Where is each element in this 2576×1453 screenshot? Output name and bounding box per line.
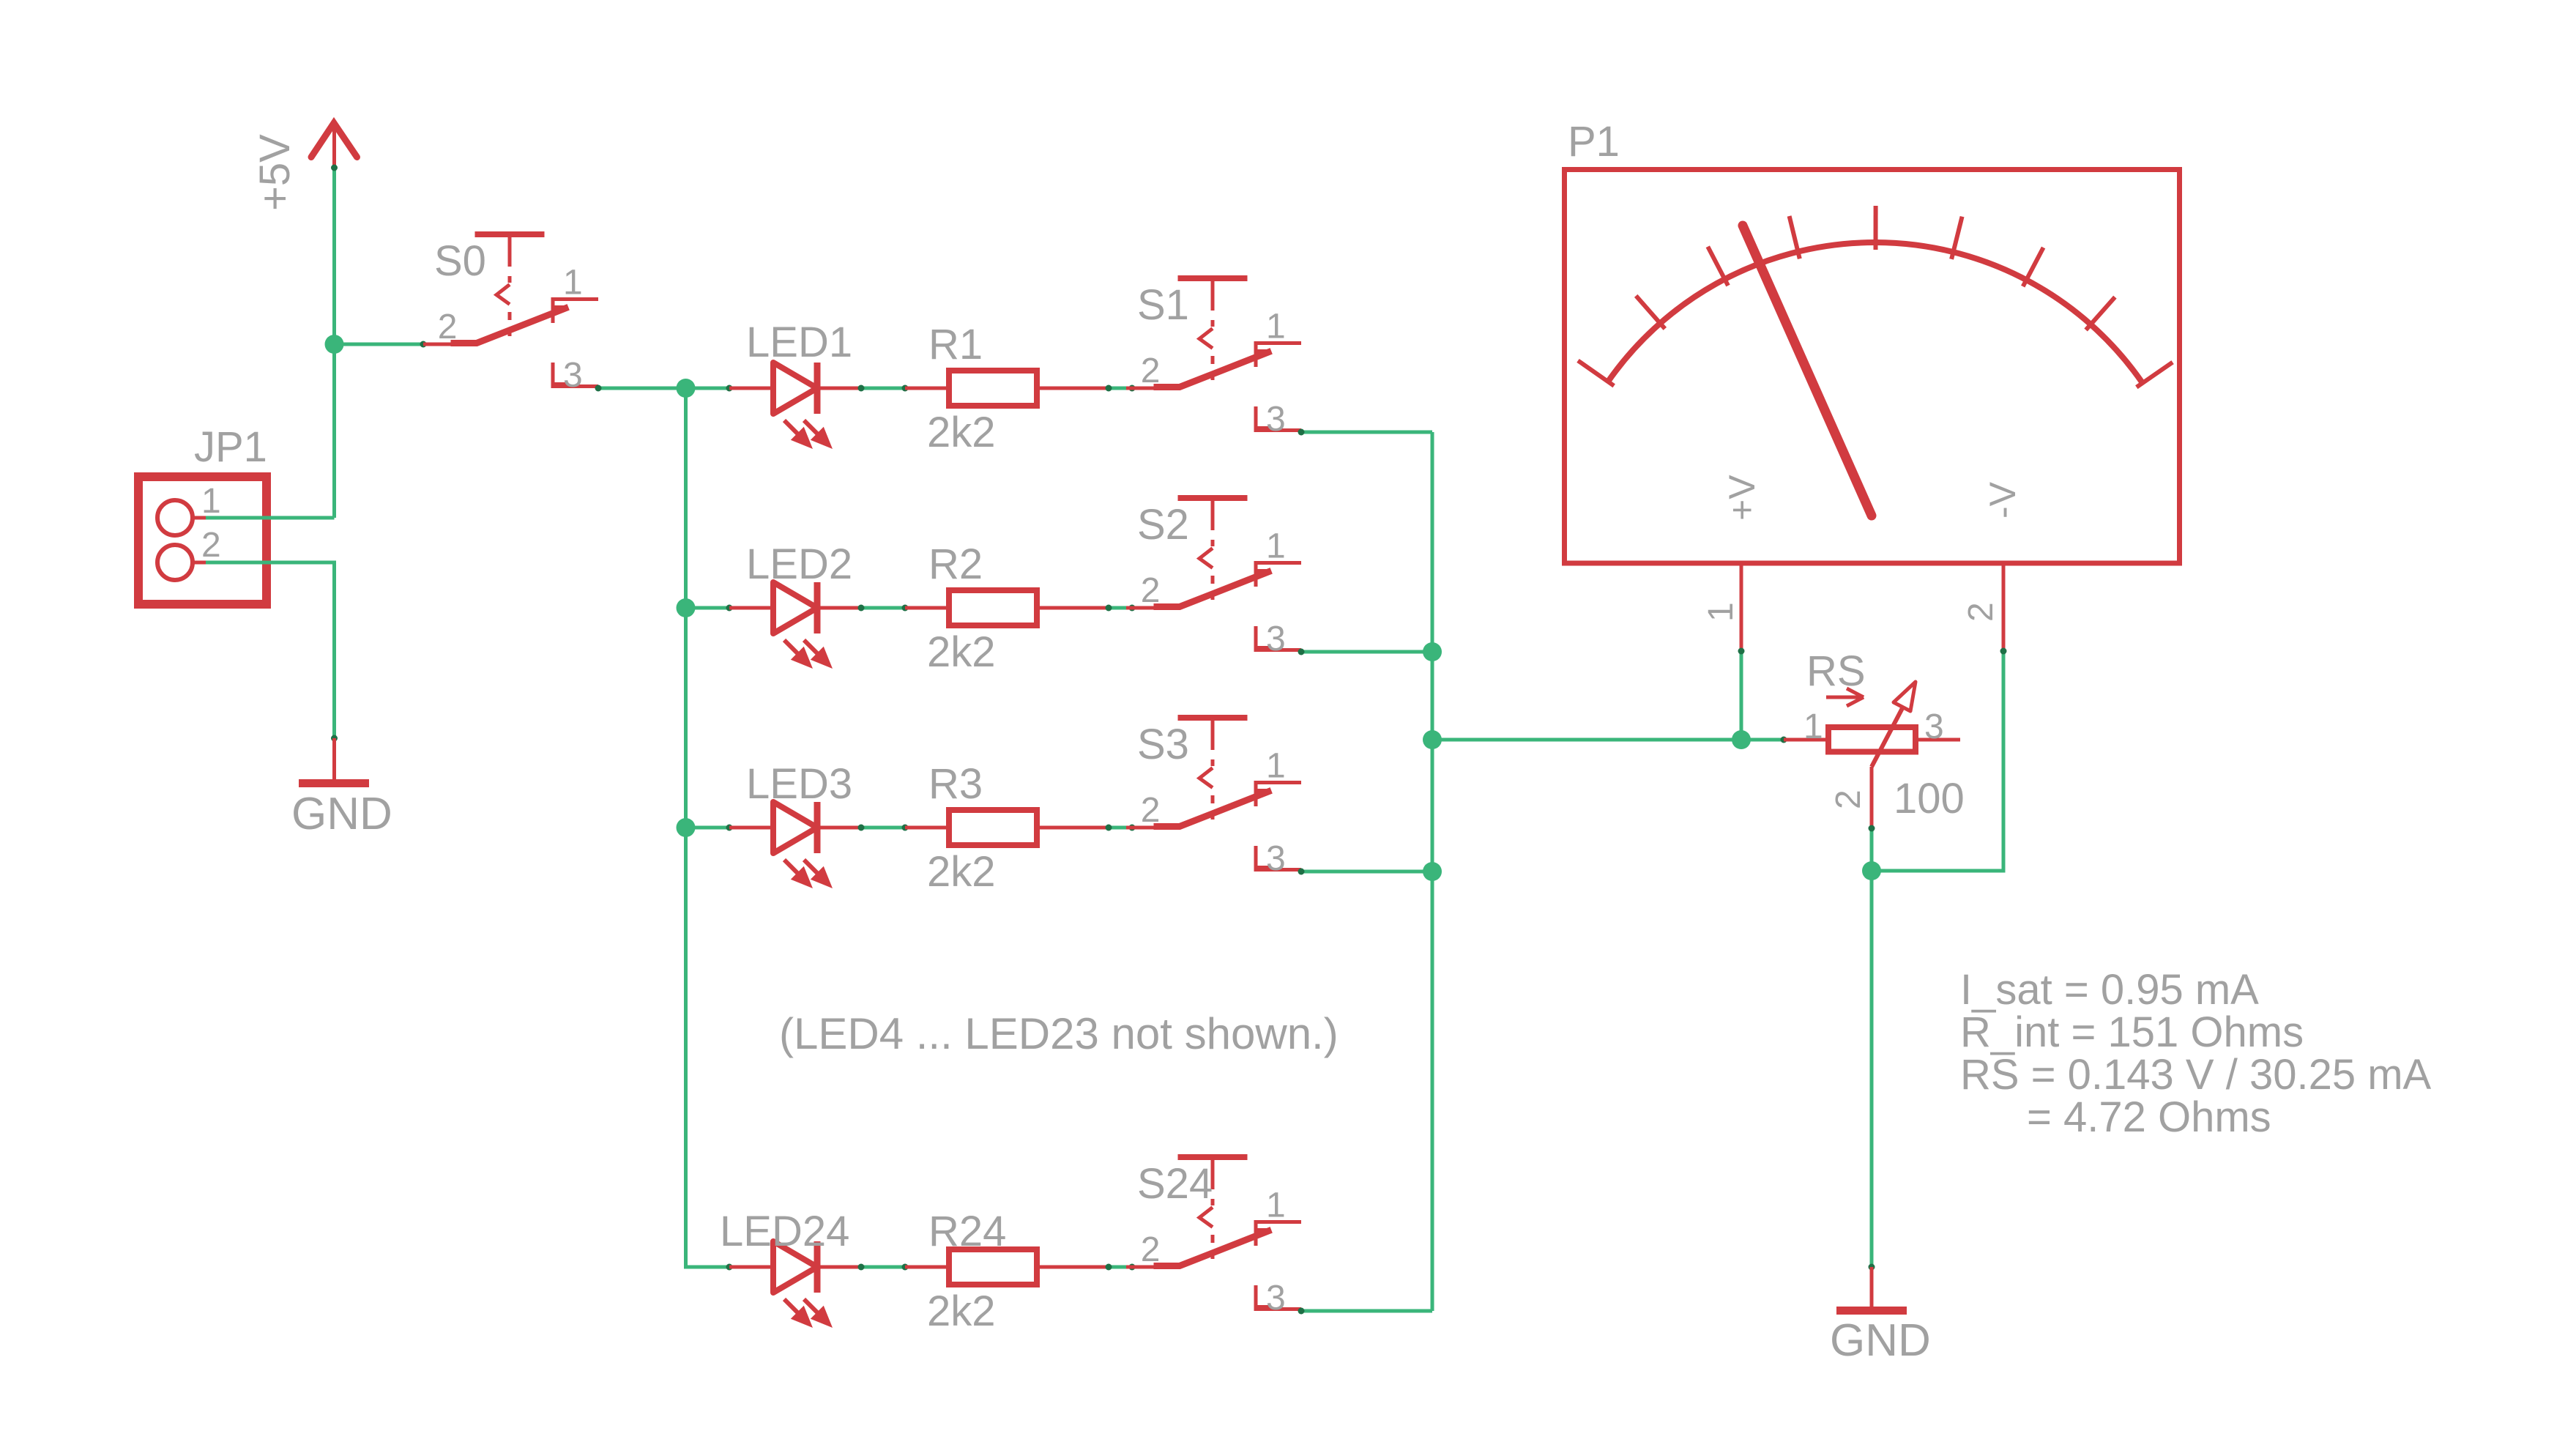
wire LED2 cathode to R2 bbox=[861, 606, 905, 610]
plunger T-bar bbox=[1178, 1154, 1248, 1160]
svg-text:1: 1 bbox=[1266, 527, 1286, 566]
diode triangle and cathode bar bbox=[773, 363, 817, 414]
wire +5V rail down to JP1 pin 1 bbox=[332, 168, 336, 518]
wire S0 pin 3 to LED bus bbox=[598, 387, 686, 390]
wire bus to LED1 anode bbox=[686, 387, 730, 390]
svg-text:R_int = 151 Ohms: R_int = 151 Ohms bbox=[1960, 1008, 2304, 1056]
svg-text:LED1: LED1 bbox=[746, 319, 852, 366]
lever bbox=[1157, 352, 1268, 387]
note I_sat calculation bbox=[1960, 966, 2432, 1141]
ground bar bbox=[1836, 1307, 1907, 1315]
svg-text:2: 2 bbox=[438, 308, 458, 346]
light emission arrows bbox=[784, 860, 801, 877]
svg-text:2: 2 bbox=[1141, 352, 1161, 390]
pin 2 lead bbox=[1126, 826, 1180, 830]
anode pin bbox=[729, 826, 773, 830]
cathode pin bbox=[817, 387, 861, 390]
svg-text:S0: S0 bbox=[434, 237, 486, 285]
svg-text:1: 1 bbox=[1803, 707, 1823, 746]
wire junction down to GND bbox=[1870, 871, 1874, 1267]
svg-text:2: 2 bbox=[1141, 791, 1161, 830]
diode triangle and cathode bar bbox=[773, 802, 817, 853]
LED LED24 bbox=[720, 1208, 861, 1328]
pin 2 lead bbox=[193, 561, 206, 565]
svg-text:2k2: 2k2 bbox=[927, 1287, 996, 1335]
pin 2 (wiper) lead bbox=[1870, 767, 1874, 828]
svg-text:3: 3 bbox=[563, 356, 583, 395]
anode pin bbox=[729, 606, 773, 610]
svg-text:P1: P1 bbox=[1568, 118, 1620, 166]
LED LED2 bbox=[729, 540, 861, 669]
svg-text:3: 3 bbox=[1266, 1279, 1286, 1318]
resistor body bbox=[949, 590, 1037, 625]
svg-text:2k2: 2k2 bbox=[927, 628, 996, 676]
svg-text:R24: R24 bbox=[928, 1208, 1006, 1255]
ground bar bbox=[299, 779, 369, 787]
meter P1 (analog panel meter) bbox=[1565, 118, 2180, 563]
wire S2 pin 3 to right bus bbox=[1301, 650, 1432, 654]
resistor R1 2k2 bbox=[905, 321, 1109, 456]
pin 1 contact and lead bbox=[1254, 781, 1258, 806]
diode triangle and cathode bar bbox=[773, 582, 817, 633]
svg-text:2: 2 bbox=[201, 526, 221, 565]
resistor R2 2k2 bbox=[905, 540, 1109, 676]
ground GND (left) bbox=[291, 738, 392, 839]
diode triangle and cathode bar bbox=[773, 1241, 817, 1293]
svg-text:GND: GND bbox=[1830, 1315, 1931, 1366]
actuator spring dashes bbox=[508, 276, 512, 283]
svg-text:S2: S2 bbox=[1137, 501, 1189, 549]
svg-text:R3: R3 bbox=[928, 760, 983, 808]
plunger T-bar bbox=[1178, 715, 1248, 721]
plunger T-bar bbox=[1178, 495, 1248, 501]
svg-text:RS: RS bbox=[1806, 647, 1866, 695]
wire right collector bus vertical bbox=[1431, 432, 1434, 1311]
cathode pin bbox=[817, 606, 861, 610]
pin 2 lead bbox=[1037, 826, 1109, 830]
svg-text:3: 3 bbox=[1266, 400, 1286, 439]
wire bus to LED3 anode bbox=[686, 826, 730, 830]
switch S3 (pins 1,2,3) bbox=[1126, 718, 1301, 878]
svg-text:S24: S24 bbox=[1137, 1160, 1213, 1208]
meter body bbox=[1565, 170, 2180, 564]
actuator spring dashes bbox=[1211, 759, 1215, 766]
light emission arrows bbox=[784, 420, 801, 437]
wire LED1 cathode to R1 bbox=[861, 387, 905, 390]
pin 1 lead bbox=[905, 826, 949, 830]
svg-text:I_sat = 0.95 mA: I_sat = 0.95 mA bbox=[1960, 966, 2259, 1014]
pin 2 pad bbox=[157, 545, 193, 580]
wire S1 pin 3 to right bus bbox=[1301, 431, 1432, 434]
pin 1 pad bbox=[157, 500, 193, 535]
actuator spring dashes bbox=[1211, 320, 1215, 327]
wire bus to LED2 anode bbox=[686, 606, 730, 610]
pin 1 contact and lead bbox=[1254, 561, 1258, 587]
LED LED1 bbox=[729, 319, 861, 449]
pin 2 lead bbox=[1037, 606, 1109, 610]
svg-text:1: 1 bbox=[563, 264, 583, 302]
svg-text:2: 2 bbox=[1962, 602, 2000, 622]
svg-text:S3: S3 bbox=[1137, 721, 1189, 768]
meter pin 1 lead bbox=[1702, 563, 1741, 651]
resistor body bbox=[949, 371, 1037, 406]
svg-text:2: 2 bbox=[1141, 1230, 1161, 1269]
light emission arrows bbox=[784, 1299, 801, 1316]
scale ticks bbox=[1578, 360, 1614, 385]
wire JP1 pin 1 to +5V rail bbox=[206, 516, 335, 520]
wire RS pin 2 down bbox=[1870, 828, 1874, 871]
lever bbox=[1157, 1231, 1268, 1266]
plunger T-bar bbox=[475, 231, 545, 237]
svg-text:R1: R1 bbox=[928, 321, 983, 368]
pin 3 contact and lead bbox=[1254, 846, 1258, 872]
wire bus to meter P1 pin 1 bbox=[1432, 738, 1741, 742]
pin 3 contact and lead bbox=[1254, 406, 1258, 432]
svg-text:+5V: +5V bbox=[251, 134, 299, 211]
connector body bbox=[138, 477, 267, 604]
svg-text:1: 1 bbox=[1266, 747, 1286, 786]
pin 1 contact and lead bbox=[1254, 341, 1258, 367]
anode pin bbox=[729, 387, 773, 390]
scale arc bbox=[1608, 242, 2143, 383]
switch S2 (pins 1,2,3) bbox=[1126, 498, 1301, 658]
junction bus / S2 pin 3 bbox=[1423, 642, 1442, 661]
plunger T-bar bbox=[1178, 275, 1248, 281]
pin 2 lead bbox=[1126, 387, 1180, 390]
svg-text:R2: R2 bbox=[928, 540, 983, 588]
wire R1 to S1 pin 2 bbox=[1109, 387, 1132, 390]
pin 2 lead bbox=[1126, 1266, 1180, 1269]
resistor body bbox=[949, 810, 1037, 845]
svg-text:2k2: 2k2 bbox=[927, 409, 996, 456]
pin 3 contact and lead bbox=[1254, 626, 1258, 652]
svg-text:LED2: LED2 bbox=[746, 540, 852, 588]
trimmer resistor RS 100 bbox=[1784, 647, 1965, 828]
svg-text:1: 1 bbox=[201, 482, 221, 521]
junction bus / meter feed bbox=[1423, 730, 1442, 749]
svg-text:1: 1 bbox=[1266, 308, 1286, 346]
actuator spring dashes bbox=[1211, 540, 1215, 546]
junction bus / LED2 row bbox=[677, 598, 696, 617]
connector JP1 (2-pin header) bbox=[138, 423, 267, 604]
svg-text:1: 1 bbox=[1702, 602, 1741, 622]
wire R24 to S24 pin 2 bbox=[1109, 1266, 1132, 1269]
lever bbox=[454, 308, 565, 343]
pin 1 lead bbox=[905, 606, 949, 610]
svg-text:S1: S1 bbox=[1137, 281, 1189, 329]
svg-text:(LED4 ... LED23 not shown.): (LED4 ... LED23 not shown.) bbox=[779, 1009, 1339, 1058]
svg-text:2k2: 2k2 bbox=[927, 848, 996, 896]
wire R2 to S2 pin 2 bbox=[1109, 606, 1132, 610]
arrow head bbox=[311, 123, 357, 157]
pin 3 contact and lead bbox=[551, 363, 555, 388]
pin 1 lead bbox=[905, 1266, 949, 1269]
wire S3 pin 3 to right bus bbox=[1301, 870, 1432, 874]
pin 1 contact and lead bbox=[1254, 1220, 1258, 1246]
power symbol +5V bbox=[251, 123, 357, 211]
lever bbox=[1157, 792, 1268, 827]
pin 1 lead bbox=[1784, 738, 1828, 742]
junction +5V / S0 bbox=[325, 335, 344, 354]
svg-text:GND: GND bbox=[291, 789, 392, 839]
light emission arrows bbox=[784, 640, 801, 657]
wire meter pin 1 down bbox=[1740, 651, 1743, 740]
needle bbox=[1743, 226, 1872, 516]
wire meter pin 2 to RS junction bbox=[1872, 651, 2003, 871]
resistor body bbox=[949, 1249, 1037, 1285]
resistor body bbox=[1828, 727, 1916, 752]
wire R3 to S3 pin 2 bbox=[1109, 826, 1132, 830]
arrow shaft bbox=[332, 123, 336, 168]
svg-text:3: 3 bbox=[1266, 620, 1286, 658]
pin 1 contact and lead bbox=[551, 297, 555, 323]
ground stem bbox=[1870, 1267, 1874, 1307]
pin 2 lead bbox=[423, 343, 477, 346]
ground GND (right) bbox=[1830, 1267, 1931, 1366]
svg-text:+V: +V bbox=[1721, 475, 1762, 521]
svg-text:= 4.72 Ohms: = 4.72 Ohms bbox=[2027, 1093, 2271, 1141]
pin 1 lead bbox=[905, 387, 949, 390]
svg-text:JP1: JP1 bbox=[194, 423, 267, 471]
switch S24 (pins 1,2,3) bbox=[1126, 1157, 1301, 1318]
anode pin bbox=[729, 1266, 773, 1269]
svg-text:1: 1 bbox=[1266, 1186, 1286, 1225]
svg-text:100: 100 bbox=[1894, 775, 1965, 822]
lever bbox=[1157, 572, 1268, 607]
svg-text:LED3: LED3 bbox=[746, 760, 852, 808]
meter pin 2 lead bbox=[1962, 563, 2003, 651]
adjustment arrow marker bbox=[1826, 696, 1860, 699]
pin 2 lead bbox=[1037, 387, 1109, 390]
svg-text:LED24: LED24 bbox=[720, 1208, 849, 1255]
pin 2 lead bbox=[1037, 1266, 1109, 1269]
wire LED3 cathode to R3 bbox=[861, 826, 905, 830]
svg-text:RS = 0.143 V / 30.25 mA: RS = 0.143 V / 30.25 mA bbox=[1960, 1051, 2432, 1099]
wire junction to RS pin 1 bbox=[1741, 738, 1784, 742]
wire left LED bus vertical bbox=[686, 388, 730, 1267]
resistor R24 2k2 bbox=[905, 1208, 1109, 1335]
pin 3 contact and lead bbox=[1254, 1285, 1258, 1311]
wire LED24 cathode to R24 bbox=[861, 1266, 905, 1269]
wire S24 pin 3 to right bus bbox=[1301, 1309, 1432, 1313]
pin 2 lead bbox=[1126, 606, 1180, 610]
pin 3 lead bbox=[1916, 738, 1960, 742]
wire junction to S0 pin 2 bbox=[335, 343, 424, 346]
junction bus / LED1 row bbox=[677, 379, 696, 398]
LED LED3 bbox=[729, 760, 861, 888]
svg-text:2: 2 bbox=[1829, 789, 1868, 809]
switch S1 (pins 1,2,3) bbox=[1126, 278, 1301, 439]
junction P1 pin1 / RS pin 1 bbox=[1732, 730, 1751, 749]
ground stem bbox=[332, 738, 336, 779]
wiper arrow bbox=[1872, 708, 1902, 767]
junction bus / S3 pin 3 bbox=[1423, 862, 1442, 881]
cathode pin bbox=[817, 1266, 861, 1269]
svg-text:3: 3 bbox=[1266, 839, 1286, 878]
junction bus / LED3 row bbox=[677, 818, 696, 837]
junction RS pin 2 / meter return bbox=[1862, 861, 1881, 880]
pin 1 lead bbox=[193, 516, 206, 520]
switch S0 (pins 1,2,3) bbox=[423, 234, 598, 395]
actuator spring dashes bbox=[1211, 1199, 1215, 1205]
resistor R3 2k2 bbox=[905, 760, 1109, 896]
svg-text:2: 2 bbox=[1141, 571, 1161, 610]
svg-text:-V: -V bbox=[1982, 481, 2023, 519]
cathode pin bbox=[817, 826, 861, 830]
wire JP1 pin 2 to GND bbox=[206, 562, 335, 738]
svg-text:3: 3 bbox=[1924, 707, 1944, 746]
